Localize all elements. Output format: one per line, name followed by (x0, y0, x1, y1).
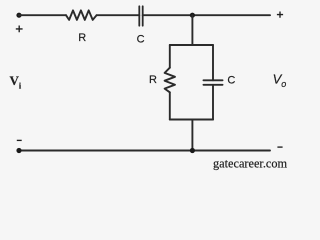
minus sign bottom-right (277, 146, 282, 148)
wire capacitor C1 to top-right terminal (143, 14, 270, 16)
wire junction down to parallel section (191, 15, 193, 45)
plus sign top-left (16, 26, 23, 33)
minus sign bottom-left (17, 139, 22, 141)
plus sign top-right (277, 12, 283, 18)
capacitor C1 plates (139, 6, 142, 25)
junction node bottom (190, 148, 195, 153)
svg-text:R: R (78, 32, 86, 44)
wire top-left to resistor R1 (19, 14, 66, 16)
svg-text:C: C (227, 75, 235, 87)
svg-text:C: C (137, 34, 145, 46)
capacitor C2 plates (203, 80, 222, 85)
wire bottom bar of parallel section (170, 119, 213, 121)
node B (bottom-left terminal) (16, 148, 21, 153)
wire right branch upper (212, 45, 214, 80)
resistor R2 (vertical) (165, 68, 175, 93)
svg-text:gatecareer.com: gatecareer.com (213, 157, 288, 171)
wire left branch lower (169, 92, 171, 119)
wire parallel section down to bottom rail (191, 120, 193, 151)
wire resistor R1 to capacitor C1 (97, 14, 140, 16)
wire right branch lower (212, 85, 214, 120)
svg-text:R: R (149, 74, 157, 86)
wire left branch upper (169, 45, 171, 68)
node A (top-left terminal) (16, 13, 21, 18)
wire top bar of parallel section (170, 44, 213, 46)
wire bottom rail (19, 150, 270, 152)
junction node top (190, 13, 195, 18)
resistor R1 (66, 10, 97, 20)
